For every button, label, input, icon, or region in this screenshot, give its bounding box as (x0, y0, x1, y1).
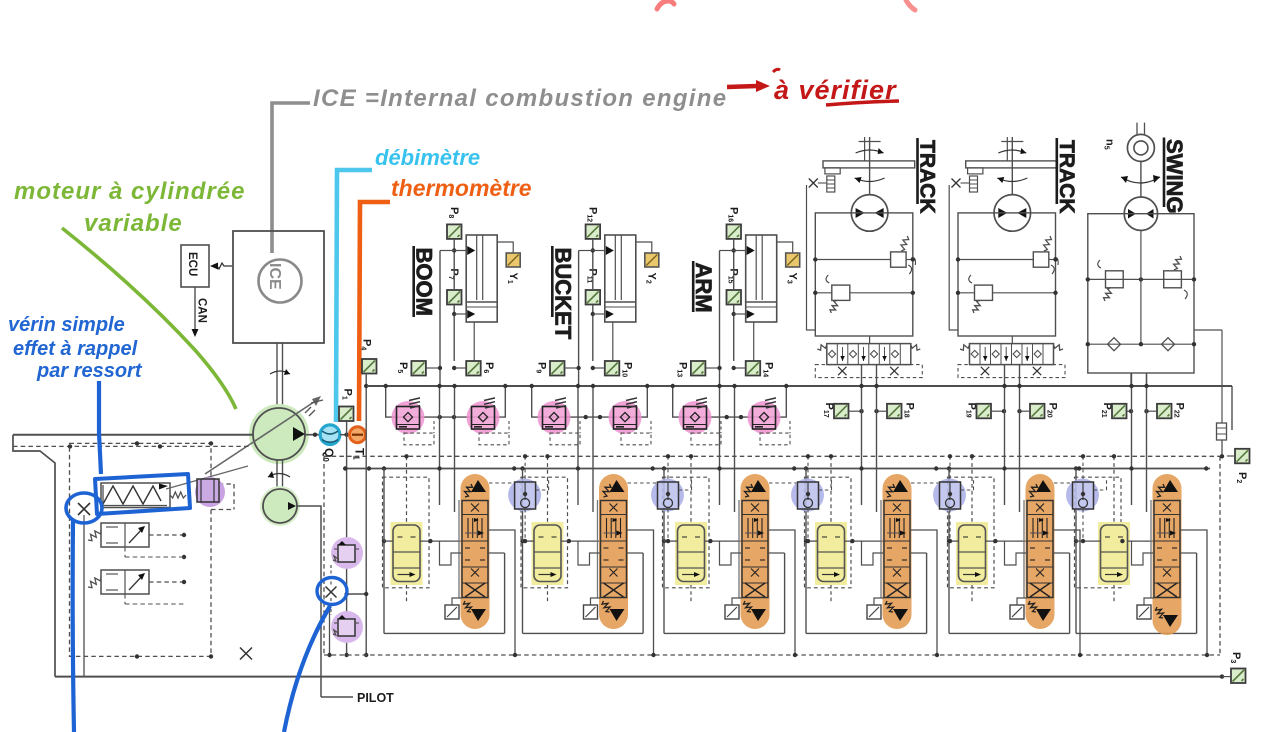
main spool 1 top spring and arrow (465, 484, 473, 497)
pilot gear pump (260, 486, 300, 526)
svg-text:ICE: ICE (266, 263, 283, 290)
TRACK-L crossover relief left (832, 285, 850, 300)
pilot cap 3 (725, 605, 739, 619)
main spool 2 bottom spring and arrow (602, 601, 610, 612)
port relief valve PR5 (679, 401, 712, 434)
stray red pen stroke top-left (657, 1, 674, 9)
TRACK-R shuttle dashed box (958, 365, 1065, 378)
engine shaft (276, 343, 278, 408)
port relief valve PR5 wires (673, 386, 752, 417)
port relief valve PR6 dashed box (760, 433, 790, 445)
sensor P6 (466, 361, 481, 376)
wire Q0-T1 (340, 434, 350, 436)
wire P4 down (365, 373, 367, 655)
SWING relief left (1106, 271, 1124, 288)
main spool 5 bottom spring and arrow (1029, 601, 1037, 612)
main spool valve 6 (1153, 474, 1182, 635)
TRACK-R shaft (1011, 137, 1013, 195)
svg-text:CAN: CAN (196, 298, 208, 323)
main spool valve 3 (741, 474, 770, 629)
anti-drift valve 5 dashed wires (1082, 509, 1084, 541)
pilot cap 1 (445, 605, 459, 619)
solenoid Y1 (497, 242, 513, 253)
left control dashed box (70, 443, 212, 656)
TRACK-L crossover relief right (891, 252, 907, 267)
ICE circle (259, 260, 302, 303)
spring to purple valve (170, 492, 186, 498)
compensator wires 4 (806, 540, 818, 542)
compensator dashed box 1 (383, 477, 430, 588)
anti-drift valve 3 (791, 479, 824, 512)
main spool section 4 frame (805, 541, 807, 633)
TRACK-L accumulator (827, 176, 835, 192)
main spool section 5 frame (948, 541, 950, 633)
compensator valve 3 (675, 522, 707, 585)
pilot cap 6 (1137, 605, 1151, 619)
restrictor under regulator (78, 503, 90, 515)
SWING relief line (1088, 278, 1194, 280)
pilot pump output line (297, 506, 321, 697)
main spool valve 5 (1026, 474, 1055, 629)
solenoid valve 1 dashed wires (149, 534, 184, 536)
purple pilot reducing valve (195, 477, 225, 507)
port relief valve PR2 wires (471, 386, 505, 417)
anti-drift valve 2 dashed link (628, 482, 657, 484)
sensor P20 (1030, 404, 1045, 419)
anti-drift valve 4 (933, 479, 966, 512)
svg-text:BOOM: BOOM (412, 248, 437, 316)
wire column ARM (733, 239, 735, 290)
svg-text:par ressort: par ressort (36, 360, 143, 382)
TRACK-L enclosure (815, 213, 913, 336)
port relief valve PR2 (467, 401, 500, 434)
main spool 4 top spring and arrow (887, 484, 895, 497)
svg-text:PILOT: PILOT (357, 691, 394, 705)
TRACK-R enclosure (958, 213, 1056, 336)
BOOM section label (412, 246, 415, 317)
gray leader line from ICE (272, 103, 310, 253)
sensor P14 (746, 361, 761, 376)
junction dots left box (135, 654, 139, 658)
compensator dashed box 2 (521, 477, 568, 588)
anti-drift valve 1 dashed wires (524, 509, 526, 541)
regulator valve in blue box (101, 483, 170, 508)
SWING feeds (1130, 373, 1132, 386)
work port wires 4 (910, 530, 937, 655)
reservoir outline (13, 435, 55, 677)
work port wires 1 (488, 530, 515, 655)
ICE engine block (233, 231, 324, 343)
ECU block (181, 245, 209, 287)
sensor P4 (362, 359, 377, 374)
main spool section 6 feed wires (1131, 373, 1133, 505)
cylinder ARM (746, 235, 777, 322)
svg-text:ICE =Internal combustion engin: ICE =Internal combustion engine (313, 85, 727, 112)
feed wire BOOM (439, 251, 441, 387)
main spool section 5 feed wires (1004, 365, 1006, 505)
svg-text:TRACK: TRACK (1055, 140, 1078, 214)
main spool 1 bottom spring and arrow (464, 601, 472, 612)
solenoid Y2 (636, 242, 652, 253)
TRACK-R motor feeds (1011, 336, 1013, 344)
anti-drift valve 3 dashed link (769, 482, 797, 484)
main spool valve 4 (883, 474, 912, 629)
solid rail (345, 468, 1210, 470)
compensator dashed box 4 (805, 477, 852, 588)
sensor P3 (1231, 669, 1246, 684)
TRACK-L shuttle valve bank (827, 344, 911, 365)
solenoid valve 1 (101, 523, 149, 547)
main spool valve 2 (599, 474, 628, 629)
dashed rail upper (324, 455, 1220, 457)
main spool 2 top spring and arrow (603, 484, 611, 497)
anti-drift valve 2 (651, 479, 684, 512)
compensator wires 2 (523, 540, 535, 542)
main spool section 1 feed wires (439, 386, 441, 505)
port relief valve PR1 dashed box (404, 433, 434, 445)
port relief valve PR5 dashed box (691, 433, 721, 445)
TRACK-R crossover relief left (975, 285, 993, 300)
reservoir dashed line (13, 445, 250, 447)
suction line (13, 434, 253, 436)
anti-drift valve 2 dashed wires (667, 509, 669, 541)
TRACK-R motor (994, 195, 1031, 232)
blue circle small restrictor (66, 493, 102, 523)
sensor P10 (605, 361, 620, 376)
pump shaft lower (276, 460, 278, 490)
work port wires 3 (768, 530, 795, 655)
pilot relief valve B (331, 611, 363, 643)
SWING relief right (1164, 271, 1182, 288)
TRACK-L motor (851, 195, 888, 232)
stray red pen stroke top-right (906, 0, 915, 10)
main spool valve 1 (461, 474, 490, 629)
port relief valve PR1 (392, 401, 425, 434)
port relief valve PR6 (748, 401, 781, 434)
wire column BUCKET (592, 239, 594, 290)
compensator valve 1 (391, 522, 423, 585)
solenoid valve 2 (101, 570, 149, 594)
restrictor between pilot valves (326, 587, 337, 598)
svg-text:ARM: ARM (691, 263, 716, 313)
thermometer T1 (350, 427, 366, 443)
wire left drain (329, 604, 331, 655)
blue leader from text to rectangle (99, 381, 101, 474)
blue circle on pilot line (317, 578, 347, 605)
TRACK-L shaft (869, 137, 871, 195)
port relief valve PR1 wires (386, 386, 471, 417)
main spool 6 bottom spring and arrow (1156, 607, 1164, 618)
TRACK-R pilot line (949, 185, 958, 330)
TRACK-L shuttle dashed box (815, 365, 922, 378)
main spool 4 bottom spring and arrow (886, 601, 894, 612)
outer dashed frame (323, 456, 325, 655)
SWING shaft (1140, 162, 1142, 198)
CAN bus arrow (194, 287, 196, 331)
feed wire ARM (719, 251, 721, 387)
left branch wire (83, 522, 85, 677)
svg-text:ECU: ECU (186, 252, 198, 276)
BUCKET section label (551, 246, 554, 317)
compensator valve 5 (956, 522, 988, 585)
TRACK-R accumulator (970, 176, 978, 192)
blue curve bottom (284, 606, 330, 732)
pilot junction line (345, 593, 368, 595)
main spool 3 bottom spring and arrow (744, 601, 752, 612)
svg-text:TRACK: TRACK (916, 140, 939, 214)
variable displacement arrow (205, 400, 317, 474)
main spool 6 top spring and arrow (1157, 484, 1165, 497)
port relief valve PR4 dashed box (621, 433, 651, 445)
port relief valve PR3 (538, 401, 571, 434)
svg-text:variable: variable (84, 210, 183, 237)
main spool 5 top spring and arrow (1030, 484, 1038, 497)
svg-text:vérin simple: vérin simple (8, 314, 125, 336)
svg-text:SWING: SWING (1162, 139, 1187, 214)
TRACK-R shuttle valve bank (970, 344, 1054, 365)
main spool section 1 frame (383, 541, 385, 633)
SWING check valves (1088, 343, 1194, 345)
pilot relief valve A (331, 537, 363, 569)
TRACK-R roller bar (966, 161, 1058, 168)
anti-drift valve 4 dashed wires (949, 509, 951, 541)
svg-text:débimètre: débimètre (375, 145, 480, 170)
main spool section 2 feed wires (577, 386, 579, 505)
cyan leader line (336, 170, 372, 422)
anti-drift valve 1 (508, 479, 541, 512)
pilot cap 2 (584, 605, 598, 619)
port relief valve PR4 wires (613, 386, 647, 417)
cylinder BOOM (466, 235, 497, 322)
anti-drift valve 5 dashed link (1054, 482, 1072, 484)
solenoid Y3 (777, 242, 793, 253)
right riser (1231, 386, 1233, 430)
red underline (826, 101, 899, 105)
SWING motor (1124, 197, 1157, 230)
compensator dashed box 3 (663, 477, 710, 588)
anti-drift valve 3 dashed wires (807, 509, 809, 541)
compensator valve 4 (815, 522, 847, 585)
sensor P1 (339, 407, 354, 422)
wire P1 down (346, 421, 348, 655)
wire column BOOM (453, 239, 455, 290)
TRACK-L roller bar (823, 161, 915, 168)
signal arrow ICE to ECU (213, 263, 232, 269)
blue highlight rectangle (95, 474, 190, 514)
work port wires 6 (1180, 530, 1207, 655)
blue long line down-left (73, 520, 74, 732)
main spool section 2 frame (522, 541, 524, 633)
main spool 3 top spring and arrow (745, 484, 753, 497)
restrictor on bottom dashed line (240, 648, 252, 660)
port relief valve PR3 dashed box (550, 433, 580, 445)
main variable pump P (249, 404, 309, 464)
compensator dashed box 6 (1075, 477, 1122, 588)
feed wire BUCKET (578, 251, 580, 387)
anti-drift valve 1 dashed link (489, 482, 514, 484)
pilot cap 4 (867, 605, 881, 619)
main spool section 6 frame (1075, 541, 1077, 633)
TRACK-L motor feeds (869, 336, 871, 344)
solenoid valve 2 dashed wires (149, 581, 184, 583)
SWING label (1163, 138, 1166, 208)
PILOT label leader (321, 696, 353, 698)
ARM section label (692, 261, 695, 312)
anti-drift valve 5 (1066, 479, 1099, 512)
flow meter Q0 (320, 425, 340, 445)
work port wires 2 (627, 530, 654, 655)
compensator valve 2 (532, 522, 564, 585)
orange leader line (359, 202, 390, 421)
sensor P18 (887, 404, 902, 419)
compensator wires 5 (949, 540, 959, 542)
wire regulator to pump arm (166, 466, 248, 489)
pilot cap 5 (1010, 605, 1024, 619)
main spool section 3 frame (663, 541, 665, 633)
compensator wires 1 (384, 540, 393, 542)
pilot pressure rail (367, 385, 1232, 387)
port relief valve PR3 wires (532, 386, 613, 417)
SWING enclosure (1088, 214, 1194, 373)
svg-text:effet à rappel: effet à rappel (13, 338, 138, 360)
svg-text:thermomètre: thermomètre (391, 175, 532, 201)
anti-drift valve 4 dashed link (911, 482, 939, 484)
svg-text:moteur à cylindrée: moteur à cylindrée (14, 178, 245, 205)
cylinder BUCKET (605, 235, 636, 322)
compensator valve 6 (1098, 522, 1130, 585)
main spool section 4 feed wires (861, 365, 863, 505)
work port wires 5 (1053, 530, 1080, 655)
TRACK-R crossover relief right (1033, 252, 1049, 267)
inline filter (1217, 423, 1227, 440)
compensator wires 6 (1076, 540, 1101, 542)
port relief valve PR4 (609, 401, 642, 434)
green curve leader (62, 228, 236, 409)
port relief valve PR2 dashed box (479, 433, 509, 445)
svg-text:BUCKET: BUCKET (550, 248, 575, 340)
sensor P22 (1157, 404, 1172, 419)
port relief valve PR6 wires (752, 386, 786, 417)
sensor P2 (1235, 449, 1250, 464)
main spool section 3 feed wires (719, 386, 721, 505)
red arrow (727, 86, 757, 87)
compensator dashed box 5 (948, 477, 995, 588)
TRACK-L pilot line (807, 185, 816, 330)
compensator wires 3 (664, 540, 678, 542)
tank rail bottom (55, 676, 1222, 678)
